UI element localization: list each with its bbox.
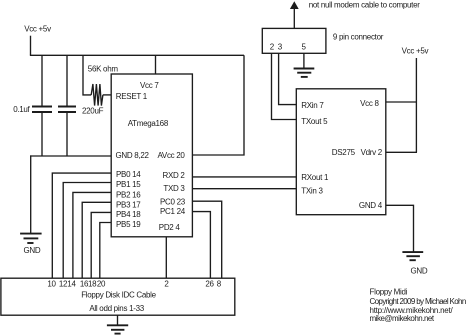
svg-text:ATmega168: ATmega168 bbox=[128, 119, 169, 128]
svg-text:TXin 3: TXin 3 bbox=[301, 186, 323, 195]
wire 220uF to gnd rail bbox=[66, 112, 68, 156]
svg-text:not null modem cable to comput: not null modem cable to computer bbox=[309, 0, 421, 9]
svg-text:PB2 16: PB2 16 bbox=[116, 190, 141, 199]
wire GND4 bbox=[386, 205, 414, 252]
svg-text:TXD 3: TXD 3 bbox=[163, 184, 185, 193]
connector 9 pin bbox=[262, 28, 326, 53]
svg-text:14: 14 bbox=[67, 280, 76, 289]
wire gnd drop bbox=[30, 155, 32, 233]
wire db9 pin2 to TXout5 bbox=[272, 53, 297, 119]
svg-text:Floppy Disk IDC Cable: Floppy Disk IDC Cable bbox=[81, 291, 156, 300]
wire 0.1uf to gnd rail bbox=[41, 112, 43, 156]
wire reset pullup drop bbox=[83, 55, 91, 95]
wire RXD2 to RXout1 bbox=[192, 176, 296, 178]
wire AVcc feed bbox=[192, 55, 244, 155]
wire PB3 to floppy pin 16 bbox=[82, 202, 111, 278]
wire PB1 to floppy pin 12 bbox=[63, 183, 111, 279]
wire Vcc rail bbox=[30, 54, 244, 56]
svg-text:0.1uf: 0.1uf bbox=[13, 105, 30, 114]
wire db9 pin3 to RXin7 bbox=[279, 53, 297, 104]
svg-text:3: 3 bbox=[278, 43, 283, 52]
wire gnd rail bbox=[30, 155, 111, 157]
svg-text:Vcc 8: Vcc 8 bbox=[360, 99, 379, 108]
svg-text:RXin 7: RXin 7 bbox=[301, 101, 324, 110]
wire Vcc8 bbox=[386, 101, 417, 103]
svg-text:PB1 15: PB1 15 bbox=[116, 180, 141, 189]
wire floppy gnd stem bbox=[117, 315, 119, 325]
svg-text:10: 10 bbox=[47, 280, 56, 289]
wire PC0 to floppy pin 8 bbox=[192, 201, 221, 278]
svg-text:GND: GND bbox=[411, 266, 428, 275]
svg-text:5: 5 bbox=[302, 43, 307, 52]
svg-text:DS275: DS275 bbox=[332, 148, 356, 157]
svg-text:220uF: 220uF bbox=[82, 106, 104, 115]
wire Vdrv2 bbox=[386, 151, 417, 153]
svg-text:PB0 14: PB0 14 bbox=[116, 170, 141, 179]
resistor 56K ohm bbox=[88, 64, 119, 105]
ground (left) bbox=[20, 234, 41, 255]
svg-text:PC1 24: PC1 24 bbox=[160, 207, 186, 216]
svg-text:PC0 23: PC0 23 bbox=[160, 197, 186, 206]
wire TXD3 to TXin3 bbox=[192, 188, 296, 190]
wire 0.1uf drop bbox=[41, 55, 43, 106]
svg-text:Vdrv 2: Vdrv 2 bbox=[361, 148, 383, 157]
ground (floppy) bbox=[107, 325, 128, 333]
wire PD2 to floppy pin 2 bbox=[165, 237, 167, 278]
svg-text:2: 2 bbox=[164, 280, 169, 289]
wire PB5 to floppy pin 20 bbox=[100, 223, 111, 279]
IC U2 DS275 bbox=[296, 89, 386, 215]
capacitor 220uF bbox=[58, 106, 104, 115]
svg-text:mike@mikekohn.net: mike@mikekohn.net bbox=[370, 314, 435, 323]
IC U1 ATmega168 bbox=[111, 74, 192, 237]
svg-text:Vcc 7: Vcc 7 bbox=[140, 81, 159, 90]
svg-text:PD2 4: PD2 4 bbox=[159, 223, 181, 232]
svg-text:GND 8,22: GND 8,22 bbox=[116, 151, 150, 160]
wire PB0 to floppy pin 10 bbox=[52, 173, 111, 278]
wire Vcc right stem bbox=[415, 58, 417, 152]
svg-text:PB3 17: PB3 17 bbox=[116, 200, 141, 209]
svg-text:56K ohm: 56K ohm bbox=[88, 64, 119, 73]
svg-text:8: 8 bbox=[217, 280, 222, 289]
svg-text:RXD 2: RXD 2 bbox=[163, 171, 186, 180]
svg-text:GND: GND bbox=[24, 246, 41, 255]
svg-text:AVcc 20: AVcc 20 bbox=[157, 151, 185, 160]
svg-text:PB5 19: PB5 19 bbox=[116, 220, 141, 229]
svg-text:Vcc +5v: Vcc +5v bbox=[402, 47, 429, 56]
svg-text:9 pin connector: 9 pin connector bbox=[333, 33, 384, 42]
wire PC1 to floppy pin 26 bbox=[192, 212, 210, 279]
svg-text:2: 2 bbox=[270, 43, 275, 52]
wire Vcc7 feed bbox=[155, 55, 157, 74]
ground (right) bbox=[402, 252, 428, 275]
wire PB2 to floppy pin 14 bbox=[73, 192, 111, 278]
connector floppy IDC cable bbox=[1, 278, 235, 315]
wire Vcc stem bbox=[30, 36, 32, 56]
cable arrow bbox=[290, 1, 299, 28]
svg-text:GND 4: GND 4 bbox=[359, 201, 383, 210]
svg-text:RESET 1: RESET 1 bbox=[116, 92, 148, 101]
svg-text:RXout 1: RXout 1 bbox=[301, 173, 329, 182]
svg-text:All odd pins 1-33: All odd pins 1-33 bbox=[89, 304, 144, 313]
svg-text:PB4 18: PB4 18 bbox=[116, 210, 141, 219]
capacitor 0.1uf bbox=[13, 105, 52, 114]
svg-text:Floppy Midi: Floppy Midi bbox=[370, 288, 408, 297]
wire PB4 to floppy pin 18 bbox=[91, 212, 111, 278]
wire db9 pin5 to ground bbox=[303, 53, 305, 68]
svg-text:18: 18 bbox=[88, 280, 97, 289]
svg-text:20: 20 bbox=[97, 280, 106, 289]
wire 220uF drop bbox=[66, 55, 68, 106]
svg-text:Vcc +5v: Vcc +5v bbox=[24, 24, 51, 33]
svg-text:26: 26 bbox=[205, 280, 214, 289]
svg-text:TXout 5: TXout 5 bbox=[301, 117, 328, 126]
ground (db9) bbox=[294, 69, 315, 77]
